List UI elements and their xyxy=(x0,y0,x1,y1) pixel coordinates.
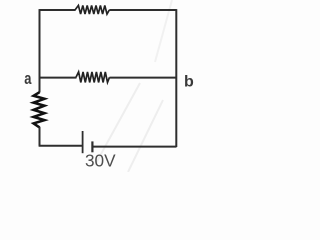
wire top left xyxy=(40,9,76,11)
wire middle left xyxy=(40,77,77,79)
resistor R2 xyxy=(76,72,110,83)
battery B1 long plate xyxy=(82,131,84,153)
battery B1 short plate xyxy=(91,141,93,152)
wire right vertical xyxy=(175,9,177,147)
wire top right xyxy=(109,9,176,11)
watermark line xyxy=(95,83,140,165)
svg-text:30V: 30V xyxy=(85,151,116,171)
resistor R3 xyxy=(34,92,45,127)
watermark line xyxy=(155,0,172,62)
resistor R1 xyxy=(75,5,109,14)
svg-text:b: b xyxy=(184,73,194,90)
watermark line xyxy=(128,100,163,172)
wire bottom right xyxy=(92,146,176,148)
wire left vertical (top corner to node a) xyxy=(39,9,41,77)
svg-text:a: a xyxy=(24,69,32,88)
wire R3 to bottom corner xyxy=(39,127,41,146)
wire node a down to R3 xyxy=(39,78,41,93)
wire bottom left xyxy=(39,145,82,147)
wire middle right (to node b) xyxy=(110,77,177,79)
